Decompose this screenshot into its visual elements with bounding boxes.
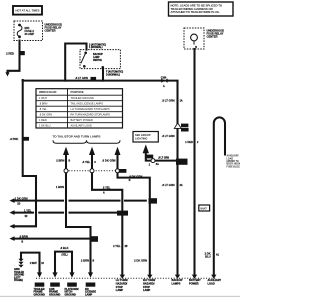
fuse MAXIFUSE 2 30 AMP (17, 24, 34, 39)
splice box on YEL wire (117, 211, 128, 216)
wire .8 LT GRN down right side from C100 (162, 81, 183, 276)
pin label F (AUTOMATIC) / D (NORMAL) (106, 71, 123, 77)
svg-text:TRAILER: TRAILER (14, 271, 24, 274)
svg-text:2 RED: 2 RED (6, 52, 14, 56)
svg-text:TRAILER GROUND: TRAILER GROUND (71, 96, 94, 100)
svg-text:1D: 1D (25, 216, 28, 218)
pin label 2 (AUTOMATIC) / 1 (NORMAL) (89, 43, 106, 49)
svg-text:.8 BRN: .8 BRN (19, 234, 28, 238)
dotted splice line with splices (64, 169, 126, 173)
svg-text:W/AT: W/AT (200, 207, 207, 211)
wire .8 BLK ground loop (55, 246, 72, 273)
svg-text:LAMP: LAMP (85, 292, 93, 296)
wire stub from switch pin F/D down (102, 69, 104, 81)
wire .8 PNK down left side with jog (9, 80, 36, 229)
svg-text:2 BRN: 2 BRN (56, 158, 64, 162)
power label box HOT AT ALL TIMES (13, 6, 42, 15)
svg-text:TO TAIL/STOP AND TURN LAMPS: TO TAIL/STOP AND TURN LAMPS (53, 134, 101, 138)
svg-text:3A: 3A (156, 163, 159, 166)
arrow and label backup lamps at wire 177.5 (172, 275, 183, 286)
underhood fuse-relay center dashed box (left) (14, 21, 62, 41)
splice S420 black box on LT GRN wire (176, 159, 188, 165)
underhood fuse-relay center dashed box (right) with stud (184, 28, 224, 49)
svg-text:BATTERY POWER: BATTERY POWER (71, 118, 93, 122)
svg-text:AUXILIARY LOAD: AUXILIARY LOAD (71, 124, 92, 128)
down arrow and connector under wire 55 (49, 272, 60, 296)
svg-text:1D: 1D (17, 204, 20, 206)
svg-text:1B: 1B (125, 246, 128, 248)
svg-text:GROUND: GROUND (14, 275, 25, 277)
svg-text:.8 BRN: .8 BRN (39, 102, 47, 106)
svg-text:1 YEL: 1 YEL (24, 208, 32, 212)
W/AT option box (199, 205, 210, 211)
svg-text:2 YEL: 2 YEL (113, 244, 121, 248)
svg-text:LAMP: LAMP (93, 56, 100, 59)
wire .8 DK GRN RH turn with up arrow (102, 147, 150, 276)
svg-text:HOT AT ALL TIMES: HOT AT ALL TIMES (15, 9, 39, 13)
svg-text:.8 DK GRN: .8 DK GRN (102, 158, 116, 162)
note box top right (169, 2, 234, 16)
wire 1 WHT ground loop (21, 253, 44, 273)
svg-text:1A: 1A (180, 99, 183, 102)
svg-text:SEE GROUP: SEE GROUP (135, 133, 151, 137)
svg-text:2 (AUTOMATIC): 2 (AUTOMATIC) (89, 43, 106, 46)
svg-text:2 DK GRN: 2 DK GRN (134, 259, 147, 263)
wire .8 BRN off page left (9, 234, 91, 243)
bottom dotted line (36, 277, 216, 279)
svg-text:1 RED: 1 RED (39, 118, 47, 122)
wire color purpose table (36, 89, 123, 128)
svg-text:(LEFT: (LEFT (14, 277, 21, 279)
svg-text:LOAD: LOAD (208, 282, 215, 286)
wire label .8 LT GRN with connector C2 box (75, 76, 96, 81)
svg-text:.8 LT GRN: .8 LT GRN (158, 157, 169, 159)
svg-text:1 RED: 1 RED (185, 140, 193, 144)
arrow and label LH turn at wire 122.3 (116, 275, 128, 293)
svg-text:.8 DK GRN: .8 DK GRN (129, 174, 143, 178)
svg-text:BLU: BLU (205, 255, 211, 259)
svg-text:(YEL): (YEL) (62, 255, 68, 257)
svg-text:LOAD: LOAD (227, 157, 234, 160)
svg-text:.8 YEL: .8 YEL (82, 160, 91, 164)
svg-text:GROUND: GROUND (49, 292, 60, 296)
text TO TAIL/STOP AND TURN LAMPS (53, 134, 101, 138)
wire label 2 DK BLU (205, 251, 220, 258)
svg-text:PURPOSE: PURPOSE (71, 90, 84, 94)
svg-text:TAIL AND LICENSE LAMPS: TAIL AND LICENSE LAMPS (71, 102, 104, 106)
ground terminal G360 (14, 259, 25, 282)
svg-text:G360: G360 (14, 269, 20, 271)
svg-text:.8 BLK: .8 BLK (60, 246, 69, 250)
svg-text:1 BRN: 1 BRN (56, 185, 64, 189)
svg-text:30 AMP: 30 AMP (25, 32, 35, 36)
inline connector C100 (161, 77, 168, 87)
switch contacts and blade (81, 52, 104, 69)
svg-text:LAMPS: LAMPS (172, 282, 181, 286)
down arrow and connector under wire 39.5 (34, 272, 45, 296)
splice box on DK GRN wire (149, 198, 158, 203)
down arrow and connector under wire 90.5 license (85, 272, 96, 296)
wire .8 LT GRN CHMSL with up arrow (143, 144, 176, 166)
svg-text:GROUND: GROUND (65, 292, 76, 296)
svg-text:2 YEL: 2 YEL (103, 185, 111, 189)
wire 1 DK GRN off page left (9, 196, 145, 205)
svg-text:1 WHT: 1 WHT (30, 263, 38, 265)
svg-text:D (NORMAL): D (NORMAL) (106, 73, 120, 76)
main horizontal wire .8 LT GRN to C100 (23, 81, 178, 82)
svg-text:.8 LT GRN: .8 LT GRN (162, 134, 175, 138)
svg-text:SWITCH: SWITCH (93, 60, 102, 62)
wire 1 YEL off page left (9, 208, 117, 217)
wire .8 BRN tail lamps with up arrow (56, 147, 91, 273)
svg-text:FRAME): FRAME) (14, 279, 23, 282)
brace over tail/stop/turn wires (53, 140, 120, 143)
splice box on BRN wire (90, 236, 98, 242)
svg-text:.8 LT GRN: .8 LT GRN (75, 76, 88, 80)
arrow and label battery power at wire 194.5 (189, 275, 201, 286)
svg-text:2A: 2A (180, 184, 183, 187)
wire label 2 DK GRN at bottom (134, 259, 147, 263)
svg-text:CENTER: CENTER (45, 29, 56, 33)
svg-text:LAMP: LAMP (116, 288, 124, 292)
svg-text:1 DK BLU: 1 DK BLU (39, 124, 51, 128)
svg-text:.8 DK GRN: .8 DK GRN (39, 113, 52, 117)
svg-text:AUXILIARY: AUXILIARY (227, 155, 240, 158)
svg-text:.8 LT GRN: .8 LT GRN (162, 183, 175, 187)
arrow and label auxiliary load at wire 213.8 (208, 275, 222, 286)
arrow and label RH turn at wire 149.8 (143, 275, 155, 293)
svg-text:1 (NORMAL): 1 (NORMAL) (89, 46, 103, 49)
svg-text:GROUND: GROUND (34, 292, 45, 296)
auxiliary load text block (227, 155, 243, 169)
svg-text:POWER: POWER (189, 282, 199, 286)
see group reference box (133, 132, 158, 143)
wire label 2 BRN at license wire (81, 258, 95, 262)
wire from switch pin 2/1 up, left and down to node at y80.6 (65, 44, 86, 81)
wire label .8 LT GRN 2A (162, 183, 183, 187)
svg-text:1 DK GRN: 1 DK GRN (15, 196, 28, 200)
wire 1 RED from relay center down to trailer connector (185, 49, 199, 276)
svg-text:F (AUTOMATIC): F (AUTOMATIC) (106, 71, 123, 74)
wire .8 YEL LH turn with up arrow (82, 147, 122, 276)
svg-text:CENTER: CENTER (207, 35, 218, 39)
svg-text:BODY HOOK: BODY HOOK (227, 164, 241, 166)
svg-text:LIGHTING: LIGHTING (135, 137, 147, 141)
svg-text:BACKUP: BACKUP (93, 53, 103, 56)
svg-text:FUSE BLOCK): FUSE BLOCK) (227, 166, 241, 168)
svg-text:S420: S420 (178, 160, 185, 164)
svg-text:2 BRN: 2 BRN (81, 258, 89, 262)
svg-text:WIRE/COLOR: WIRE/COLOR (39, 90, 57, 94)
svg-text:.8 LT GRN: .8 LT GRN (162, 98, 175, 102)
svg-text:RH TURN/HAZARD STOPLAMPS: RH TURN/HAZARD STOPLAMPS (71, 113, 111, 117)
svg-text:LAMP: LAMP (143, 288, 151, 292)
svg-text:1 WHT: 1 WHT (39, 96, 47, 100)
faint page line at bottom (0, 295, 240, 297)
svg-text:LH TURN/HAZARD STOPLAMPS: LH TURN/HAZARD STOPLAMPS (71, 107, 110, 111)
wire 2 RED from fuse down and left off-page (5, 41, 24, 77)
wire label 2 YEL at bottom (113, 244, 128, 248)
svg-text:ATTACHED TO TRAILER WIRE PLUG.: ATTACHED TO TRAILER WIRE PLUG. (171, 10, 220, 14)
svg-text:.8 YEL: .8 YEL (39, 107, 47, 111)
hairpin loop wire 2 DK BLU auxiliary (214, 117, 225, 275)
splice arrow into LT GRN wire with labels S268 (162, 123, 189, 138)
svg-text:(WIRED TO: (WIRED TO (227, 161, 239, 163)
down arrow and connector under wire 72 (65, 272, 79, 296)
svg-text:.8 PNK: .8 PNK (10, 137, 19, 141)
backup lamp switch U1 dashed box (80, 50, 120, 69)
